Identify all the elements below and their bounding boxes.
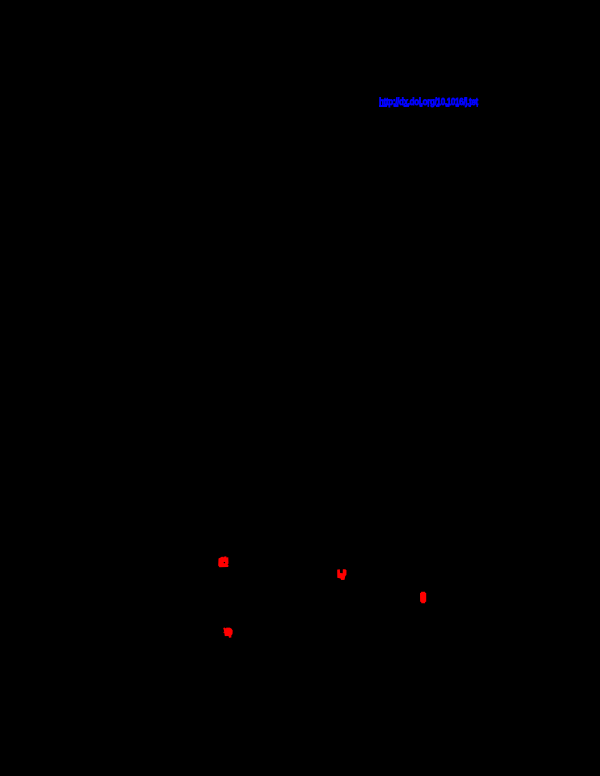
blue DOI hyperlink [379, 98, 483, 109]
red label O3 (scheme, right structure) [420, 592, 426, 604]
red label O2 (scheme, center structure) [337, 569, 346, 580]
red label O4 (scheme, lower-left structure) [223, 628, 233, 638]
red label O1 (scheme, upper-left structure) [218, 556, 228, 567]
